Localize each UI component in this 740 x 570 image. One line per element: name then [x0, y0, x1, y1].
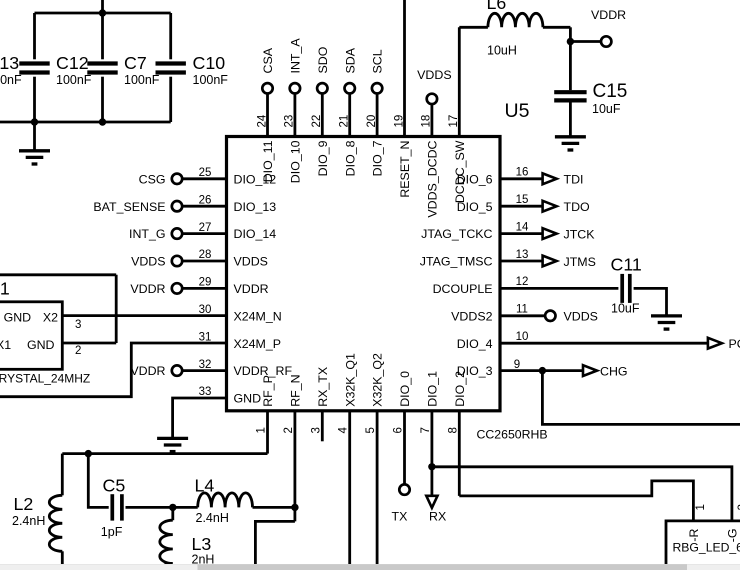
svg-text:L2: L2 [14, 494, 34, 514]
svg-text:DCOUPLE: DCOUPLE [433, 282, 493, 296]
crystal pin number 2 [75, 345, 81, 357]
pin 9 DIO_3 / output CHG [457, 359, 628, 378]
svg-text:U5: U5 [505, 100, 530, 122]
svg-text:1pF: 1pF [101, 525, 123, 539]
crystal Y1 box [0, 302, 62, 370]
svg-text:1: 1 [695, 504, 707, 510]
inductor L6 [459, 0, 570, 58]
svg-text:100nF: 100nF [124, 73, 160, 87]
junction DIO_1 node [428, 463, 435, 470]
svg-text:100nF: 100nF [0, 73, 22, 87]
pin 30 X24M_N [199, 304, 282, 323]
svg-text:12: 12 [516, 276, 529, 288]
svg-text:18: 18 [421, 115, 433, 128]
pin 13 JTAG_TMSC / output JTMS [420, 249, 596, 269]
reference U5 [505, 100, 530, 122]
svg-text:X2: X2 [43, 311, 58, 325]
junction top rail [99, 9, 106, 16]
svg-text:6: 6 [393, 427, 405, 433]
svg-text:15: 15 [516, 194, 529, 206]
pin 14 JTAG_TCKC / output JTCK [421, 221, 595, 241]
junction bottom rail mid [99, 118, 106, 125]
wire crystal X1 riser [115, 275, 118, 343]
svg-text:11: 11 [516, 304, 528, 316]
capacitor C15 [554, 81, 627, 116]
value CC2650RHB [477, 427, 548, 441]
svg-text:DIO_2: DIO_2 [453, 371, 467, 407]
pin 19 RESET_N [393, 0, 412, 198]
svg-text:4: 4 [338, 427, 350, 434]
svg-text:32: 32 [199, 359, 212, 371]
svg-text:BAT_SENSE: BAT_SENSE [93, 200, 165, 214]
svg-text:C12: C12 [56, 53, 89, 73]
junction C5/L3/L4 [169, 504, 176, 511]
svg-text:16: 16 [516, 167, 529, 179]
svg-text:2: 2 [75, 345, 81, 357]
pin 3 RX_TX [310, 367, 330, 441]
svg-text:22: 22 [311, 115, 323, 128]
svg-text:DIO_9: DIO_9 [316, 140, 330, 176]
svg-text:SCL: SCL [371, 49, 385, 73]
wire DIO_1 to RBG_LED -G [432, 467, 732, 521]
svg-text:VDDR: VDDR [591, 8, 626, 22]
junction DIO_3 node [539, 367, 546, 374]
svg-text:2nH: 2nH [192, 553, 215, 567]
svg-text:C10: C10 [193, 53, 226, 73]
svg-text:TX: TX [392, 510, 408, 524]
svg-text:27: 27 [199, 222, 212, 234]
svg-text:CC2650RHB: CC2650RHB [477, 427, 548, 441]
pin 22 DIO_9 / terminal SDO [311, 46, 330, 176]
svg-text:RX_TX: RX_TX [316, 367, 330, 407]
svg-text:33: 33 [199, 386, 212, 398]
value 2nH of L3 (over scrollbar) [192, 553, 215, 567]
svg-text:DIO_5: DIO_5 [457, 200, 493, 214]
svg-text:X32K_Q2: X32K_Q2 [371, 353, 385, 407]
capacitor C7 [87, 13, 160, 122]
svg-text:X24M_N: X24M_N [234, 309, 282, 323]
svg-text:17: 17 [448, 115, 460, 128]
svg-text:100nF: 100nF [193, 73, 229, 87]
svg-text:RF_P: RF_P [261, 375, 275, 407]
svg-text:JTAG_TMSC: JTAG_TMSC [420, 255, 493, 269]
scrollbar thumb [198, 564, 688, 570]
pin 23 DIO_10 / terminal INT_A [284, 38, 303, 184]
svg-text:VDDR: VDDR [130, 364, 165, 378]
junction VDDR node [567, 38, 574, 45]
pin 18 VDDS_DCDC / terminal VDDS [417, 68, 451, 218]
svg-text:RX: RX [429, 510, 446, 524]
svg-text:VDDR: VDDR [234, 282, 269, 296]
pin 15 DIO_5 / output TDO [457, 194, 590, 214]
pin 16 DIO_6 / output TDI [457, 167, 584, 187]
svg-text:X32K_Q1: X32K_Q1 [343, 353, 357, 407]
pin 27 DIO_14 / terminal INT_G [129, 222, 276, 241]
svg-text:C13: C13 [0, 53, 19, 73]
wire DIO_2 to RBG_LED -R [459, 481, 693, 521]
svg-text:VDDR: VDDR [130, 282, 165, 296]
svg-text:DIO_8: DIO_8 [343, 140, 357, 176]
inductor L4 [173, 476, 295, 525]
pin 11 VDDS2 / terminal VDDS [451, 304, 598, 324]
pin 31 X24M_P [199, 331, 281, 350]
wire crystal X2 to U5 pin30 X24M_N [62, 314, 226, 317]
pin 20 DIO_7 / terminal SCL [366, 49, 385, 176]
svg-text:7: 7 [420, 427, 432, 433]
svg-text:RESET_N: RESET_N [398, 141, 412, 198]
svg-text:26: 26 [199, 194, 212, 206]
svg-text:21: 21 [339, 115, 351, 128]
capacitor C12 [19, 13, 92, 122]
svg-text:DIO_12: DIO_12 [234, 172, 277, 186]
svg-text:INT_A: INT_A [289, 38, 303, 74]
svg-text:10uF: 10uF [611, 302, 640, 316]
capacitor C11 [611, 255, 642, 316]
wire DIO_3 to right edge [542, 371, 740, 425]
svg-text:CRYSTAL_24MHZ: CRYSTAL_24MHZ [0, 371, 90, 385]
svg-text:2.4nH: 2.4nH [196, 511, 229, 525]
svg-text:X24M_P: X24M_P [234, 337, 282, 351]
svg-text:DIO_14: DIO_14 [234, 227, 277, 241]
svg-text:DIO_13: DIO_13 [234, 200, 277, 214]
svg-text:GND: GND [234, 392, 262, 406]
svg-text:10uF: 10uF [592, 102, 621, 116]
svg-text:Y1: Y1 [0, 279, 10, 299]
scrollbar track [0, 564, 740, 570]
pin 25 DIO_12 / terminal CSG [139, 167, 277, 186]
svg-text:30: 30 [199, 304, 212, 316]
svg-text:8: 8 [447, 427, 459, 433]
svg-text:31: 31 [199, 331, 212, 343]
wire RF_P tap down to C5 [88, 454, 108, 508]
svg-text:10: 10 [516, 331, 529, 343]
wire RF_N down-left to edge [255, 521, 295, 564]
LED RBG_LED_6 box (clipped) [666, 521, 740, 564]
svg-text:C15: C15 [593, 81, 628, 102]
pin 29 VDDR / terminal VDDR [130, 277, 268, 296]
svg-text:CHG: CHG [600, 364, 628, 378]
svg-text:10uH: 10uH [487, 44, 517, 58]
svg-text:DIO_1: DIO_1 [426, 371, 440, 407]
wire U5 pin31 X24M_P to left edge [0, 343, 227, 397]
svg-text:2: 2 [283, 427, 295, 433]
svg-text:VDDS: VDDS [564, 310, 598, 324]
svg-text:C7: C7 [124, 53, 147, 73]
svg-text:13: 13 [516, 249, 529, 261]
wire DCDC_SW node down to C15 [569, 27, 572, 90]
svg-text:JTMS: JTMS [564, 255, 596, 269]
terminal VDDR (top right) [591, 8, 626, 47]
pin 28 VDDS / terminal VDDS [131, 249, 268, 268]
svg-text:DIO_6: DIO_6 [457, 172, 493, 186]
pin 2 RF_N [283, 374, 303, 521]
svg-text:VDDS: VDDS [131, 255, 165, 269]
pin 24 DIO_11 / terminal CSA [256, 47, 275, 182]
svg-text:C11: C11 [611, 255, 642, 275]
svg-text:RF_N: RF_N [289, 374, 303, 406]
pin 26 DIO_13 / terminal BAT_SENSE [93, 194, 276, 213]
inductor L3 [160, 507, 212, 570]
svg-text:5: 5 [365, 427, 377, 433]
capacitor C5 [103, 476, 126, 521]
value CRYSTAL_24MHZ [0, 371, 90, 385]
pin 8 DIO_2 [447, 371, 467, 496]
svg-text:3: 3 [75, 319, 81, 331]
pin 21 DIO_8 / terminal SDA [339, 47, 358, 176]
svg-text:L6: L6 [487, 0, 507, 13]
svg-text:CSG: CSG [139, 172, 166, 186]
LED pin number 2 [737, 504, 740, 510]
ground for cap bank [19, 122, 50, 164]
IC U5 body [227, 137, 501, 411]
ground for C11 [651, 314, 682, 329]
svg-text:2.4nH: 2.4nH [12, 514, 45, 528]
svg-text:CSA: CSA [261, 47, 275, 73]
svg-text:28: 28 [199, 249, 212, 261]
svg-text:23: 23 [284, 115, 296, 128]
svg-text:VDDS: VDDS [234, 255, 268, 269]
wire bottom rail [0, 121, 171, 124]
svg-text:GND: GND [4, 311, 32, 325]
pin 12 DCOUPLE [433, 276, 619, 296]
pin 1 RF_P [256, 375, 276, 453]
junction bottom rail left [31, 118, 38, 125]
svg-text:1: 1 [256, 427, 268, 433]
pin 5 X32K_Q2 [365, 353, 385, 564]
ground below C15 [555, 100, 586, 150]
svg-text:GND: GND [27, 338, 55, 352]
wire C5 to L3/L4 node [126, 506, 173, 509]
pin 10 DIO_4 / output POWER (clipped) [457, 331, 740, 351]
svg-text:JTCK: JTCK [564, 227, 596, 241]
pin 17 DCDC_SW [448, 27, 467, 203]
svg-text:DIO_4: DIO_4 [457, 337, 493, 351]
svg-text:SDA: SDA [343, 47, 357, 73]
svg-text:20: 20 [366, 115, 378, 128]
svg-text:TDI: TDI [564, 173, 584, 187]
svg-text:29: 29 [199, 277, 212, 289]
LED pin number 1 [695, 504, 707, 510]
wire to VDDR terminal [570, 40, 601, 43]
svg-text:-R: -R [687, 528, 701, 541]
svg-text:100nF: 100nF [56, 73, 92, 87]
junction RF_N / L4 [291, 504, 298, 511]
svg-text:L4: L4 [195, 476, 215, 496]
svg-text:9: 9 [514, 359, 520, 371]
wire C11 to ground [634, 288, 667, 314]
svg-text:L3: L3 [192, 534, 212, 554]
wire RF_P net [62, 452, 267, 455]
svg-text:C5: C5 [103, 476, 126, 496]
svg-text:DIO_10: DIO_10 [289, 140, 303, 183]
capacitor C10 [156, 13, 229, 122]
pin 6 DIO_0 / terminal TX [392, 371, 413, 524]
svg-text:TDO: TDO [564, 200, 591, 214]
pin 32 VDDR_RF / terminal VDDR [130, 359, 292, 378]
svg-text:DIO_7: DIO_7 [371, 140, 385, 176]
crystal pin number 3 [75, 319, 81, 331]
junction RF_P / C5 tap [85, 450, 92, 457]
pin 4 X32K_Q1 [338, 353, 358, 564]
svg-text:POWER: POWER [729, 337, 740, 351]
svg-text:INT_G: INT_G [129, 227, 166, 241]
svg-text:19: 19 [393, 115, 405, 128]
wire crystal X1 [62, 342, 116, 345]
inductor L2 [12, 454, 62, 565]
svg-text:14: 14 [516, 221, 529, 233]
value 1pF of C5 [101, 525, 123, 539]
svg-text:JTAG_TCKC: JTAG_TCKC [421, 227, 492, 241]
svg-text:RBG_LED_60: RBG_LED_60 [673, 541, 740, 555]
pin 33 GND [173, 386, 261, 437]
svg-text:VDDS_DCDC: VDDS_DCDC [426, 140, 440, 217]
pin 7 DIO_1 / input RX [420, 371, 446, 524]
reference Y1 [0, 279, 10, 299]
wire top rail [35, 12, 171, 15]
ground for pin 33 [157, 437, 188, 452]
svg-text:SDO: SDO [316, 46, 330, 73]
svg-text:X1: X1 [0, 338, 11, 352]
wire riser to VDDS above [101, 0, 104, 13]
svg-text:25: 25 [199, 167, 212, 179]
capacitor C13 (clipped at left edge) [0, 13, 22, 122]
svg-text:24: 24 [256, 114, 268, 127]
svg-text:DIO_0: DIO_0 [398, 371, 412, 407]
svg-text:VDDS2: VDDS2 [451, 309, 492, 323]
svg-text:3: 3 [310, 427, 322, 433]
svg-text:VDDS: VDDS [417, 68, 451, 82]
wire X1 net to left edge [0, 273, 116, 276]
